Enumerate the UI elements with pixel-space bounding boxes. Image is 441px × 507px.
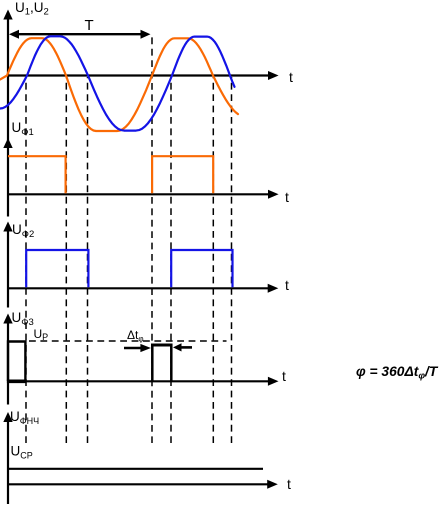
svg-text:t: t: [285, 189, 289, 205]
svg-text:T: T: [85, 17, 94, 34]
svg-text:t: t: [289, 69, 293, 85]
svg-text:φ = 360Δtφ/T: φ = 360Δtφ/T: [356, 364, 439, 382]
svg-text:t: t: [287, 476, 291, 492]
svg-text:t: t: [285, 277, 289, 293]
svg-text:t: t: [282, 368, 286, 384]
